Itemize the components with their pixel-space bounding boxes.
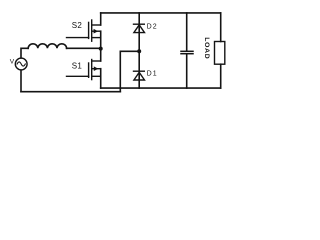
wire: load top lead — [220, 13, 222, 42]
svg-text:S2: S2 — [72, 21, 83, 30]
wire: S1 source to negative rail — [100, 69, 102, 88]
load resistor box — [215, 42, 225, 65]
svg-text:S1: S1 — [72, 61, 83, 70]
wire: AC return rail — [21, 91, 120, 93]
svg-text:D1: D1 — [147, 71, 158, 78]
wire: bottom DC bus rail — [101, 87, 221, 89]
wire: S2 drain to top rail — [100, 13, 102, 25]
svg-text:LOAD: LOAD — [203, 37, 210, 59]
MOSFET S2 — [67, 20, 101, 41]
wire: source top lead up to inductor line — [21, 48, 28, 58]
svg-text:D2: D2 — [147, 23, 158, 30]
diode D1 — [134, 71, 145, 80]
wire: midline to diode leg — [120, 50, 139, 52]
MOSFET S1 — [67, 60, 101, 80]
wire: node A to S1 drain — [100, 49, 102, 61]
wire: inductor to node A — [67, 47, 101, 49]
wire: S2 source down to node A — [100, 31, 102, 48]
inductor L — [28, 44, 66, 49]
diode D2 — [134, 24, 145, 32]
wire: load bottom lead — [220, 64, 222, 88]
node B junction dot — [137, 49, 141, 53]
node A junction dot — [99, 47, 103, 51]
wire: capacitor top lead — [186, 13, 188, 51]
wire: capacitor bottom lead — [186, 54, 188, 88]
wire: top DC bus rail — [101, 12, 221, 14]
svg-text:V: V — [10, 58, 15, 65]
wire: diode branch vertical — [138, 13, 140, 88]
wire: AC return jog vertical — [119, 51, 121, 91]
capacitor C — [181, 51, 193, 53]
wire: source bottom lead — [20, 70, 22, 92]
AC source V — [15, 58, 27, 70]
